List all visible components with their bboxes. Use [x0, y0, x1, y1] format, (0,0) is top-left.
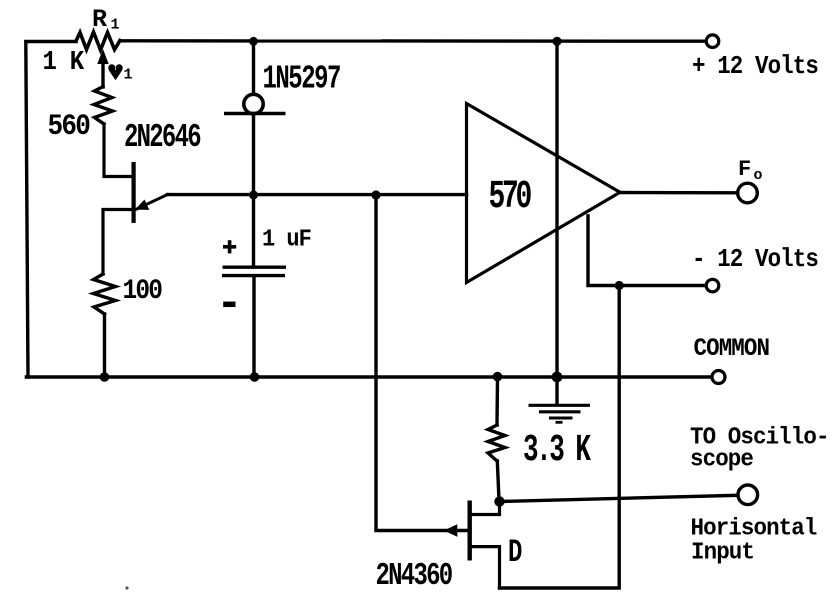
resistor R1 — [76, 32, 120, 50]
wire negative supply tap from op-amp — [588, 216, 706, 286]
svg-text:3.3 K: 3.3 K — [523, 429, 591, 472]
label 1N5297 — [263, 60, 341, 98]
label V1 — [108, 64, 132, 83]
current regulator diode 1N5297 — [224, 42, 286, 196]
svg-text:1: 1 — [111, 17, 120, 34]
junction node rail at 100 resistor — [100, 372, 110, 382]
svg-text:1: 1 — [124, 67, 133, 84]
terminal COMMON — [712, 371, 725, 384]
svg-text:2N4360: 2N4360 — [376, 559, 453, 594]
label Horisontal — [691, 515, 817, 542]
wire -12V branch down to FET source loop — [500, 286, 620, 589]
svg-text:1N5297: 1N5297 — [263, 60, 341, 98]
transistor Q1 2N2646 (UJT) — [103, 162, 168, 274]
label D — [508, 534, 522, 572]
junction node FET drain — [494, 496, 504, 506]
svg-text:COMMON: COMMON — [694, 335, 770, 364]
label TO Oscillo- — [690, 424, 829, 451]
label 1 uF — [262, 226, 311, 253]
label 3.3 K — [523, 429, 591, 472]
wire op-amp output — [620, 191, 738, 195]
svg-text:1 uF: 1 uF — [262, 226, 311, 253]
wire op-amp positive supply — [555, 42, 558, 378]
junction node -12V branch — [615, 281, 624, 290]
resistor 3.3 K — [488, 377, 505, 500]
svg-text:2N2646: 2N2646 — [124, 119, 201, 157]
svg-text:R: R — [92, 5, 107, 34]
potentiometer wiper arrow V1 — [97, 49, 108, 87]
wire to oscilloscope terminal — [500, 495, 739, 501]
svg-text:+ 12 Volts: + 12 Volts — [692, 53, 818, 82]
wire 560 to UJT base2 — [104, 124, 132, 177]
transistor Q2 2N4360 (FET) — [444, 501, 500, 589]
junction node top of 1N5297 — [249, 37, 258, 46]
svg-text:D: D — [508, 534, 522, 572]
capacitor polarity - — [223, 302, 235, 308]
svg-text:560: 560 — [48, 111, 91, 144]
label Input — [691, 539, 754, 566]
svg-text:Input: Input — [691, 539, 754, 566]
junction node op-amp supply — [552, 37, 561, 46]
label 570 — [489, 175, 531, 220]
wire left side and top-left corner — [26, 42, 76, 378]
label COMMON — [694, 335, 770, 364]
junction node rail at capacitor bottom — [250, 372, 260, 382]
junction node gate branch — [371, 190, 380, 199]
label 1 K — [43, 47, 85, 77]
label - 12 Volts — [692, 246, 818, 275]
svg-text:Horisontal: Horisontal — [691, 515, 817, 542]
label R1 — [92, 5, 120, 34]
wire 100 to common rail — [103, 314, 106, 374]
label + 12 Volts — [692, 53, 818, 82]
svg-text:scope: scope — [690, 446, 753, 473]
junction node rail at ground — [552, 372, 563, 383]
svg-text:o: o — [754, 167, 763, 184]
junction node capacitor top — [249, 191, 258, 200]
label 2N4360 — [376, 559, 453, 594]
wire common rail — [27, 375, 713, 379]
terminal -12 Volts — [706, 279, 719, 292]
capacitor polarity + — [223, 240, 236, 253]
terminal F0 — [738, 183, 758, 203]
wire emitter row to op-amp input — [168, 193, 467, 196]
junction node rail at 3.3K — [493, 372, 503, 382]
wire gate branch — [376, 195, 467, 531]
scan speck — [125, 586, 128, 589]
svg-text:570: 570 — [489, 175, 531, 220]
resistor 560 — [94, 87, 113, 125]
label 100 — [123, 275, 163, 307]
label 560 — [48, 111, 91, 144]
resistor 100 — [94, 274, 116, 314]
terminal oscilloscope horizontal input — [738, 485, 758, 505]
ground — [529, 377, 591, 422]
capacitor C1 1 uF — [222, 195, 286, 374]
wire top rail — [120, 39, 706, 43]
terminal +12 Volts — [706, 35, 719, 48]
label 2N2646 — [124, 119, 201, 157]
svg-text:100: 100 — [123, 275, 163, 307]
label scope — [690, 446, 753, 473]
svg-text:F: F — [738, 157, 751, 182]
label F0 — [738, 157, 763, 184]
svg-text:- 12 Volts: - 12 Volts — [692, 246, 818, 275]
op-amp U1 570 — [467, 104, 621, 283]
svg-text:1 K: 1 K — [43, 47, 85, 77]
